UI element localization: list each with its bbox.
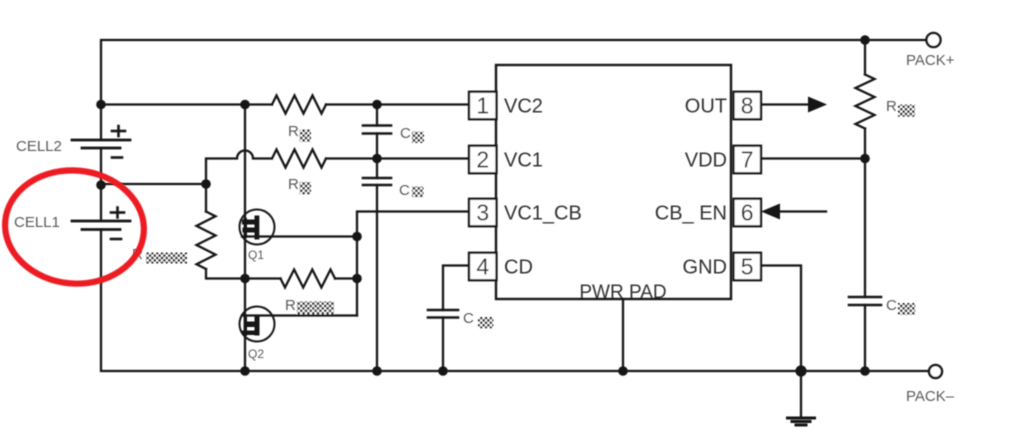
svg-text:5: 5: [741, 254, 754, 280]
wire: capacitor column x=377: [376, 105, 378, 126]
pin 6 box: [734, 199, 762, 227]
svg-text:C: C: [463, 310, 474, 327]
CELL2 minus sign: [112, 156, 122, 159]
wire: CELL2/CELL1 middle segment: [100, 148, 102, 221]
pin 4 box: [469, 253, 497, 281]
terminal PACK-: [929, 365, 942, 378]
svg-text:GND: GND: [683, 257, 727, 279]
svg-text:PACK+: PACK+: [906, 52, 955, 69]
battery CELL2: [72, 140, 130, 148]
svg-text:PACK–: PACK–: [906, 388, 955, 405]
pin 5 box: [734, 253, 762, 281]
svg-text:OUT: OUT: [685, 96, 727, 118]
wire: PWR PAD to bottom rail: [622, 299, 624, 371]
op-amp U1: IC body: [496, 65, 731, 299]
wire: top rail PACK+: [101, 40, 926, 140]
transistor Q1: [240, 210, 275, 245]
svg-text:6: 6: [741, 200, 754, 226]
resistor R(row VC2) zigzag: [272, 96, 326, 114]
redacted value blocks (checker): [146, 105, 915, 329]
svg-text:C: C: [399, 182, 410, 199]
svg-text:C: C: [400, 125, 411, 142]
svg-text:VC1_CB: VC1_CB: [504, 203, 582, 225]
wire: row VC1 right segment to pin 2: [326, 157, 469, 159]
capacitor C(row VC2) plates: [363, 126, 391, 134]
svg-text:1: 1: [476, 93, 489, 119]
wire: pin 8 OUT arrow line: [761, 103, 810, 105]
red highlight ellipse around CELL1: [0, 165, 148, 290]
wire: Q1 drain to node: [242, 235, 357, 237]
wire: pin 6 CB_EN arrow line: [779, 210, 826, 212]
ground symbol: [800, 371, 802, 417]
pin 3 box: [469, 199, 497, 227]
wire: gate rail x=245 (pin1 node down through Q1,Q2 to bottom): [244, 105, 246, 372]
CELL1 plus sign: [111, 208, 124, 218]
resistor R(PACK+, vertical): [864, 40, 866, 75]
svg-text:VC1: VC1: [504, 150, 543, 172]
svg-text:Q2: Q2: [248, 347, 264, 361]
svg-text:2: 2: [476, 147, 489, 173]
transistor Q2: [240, 307, 275, 342]
svg-text:R: R: [886, 98, 897, 115]
svg-text:3: 3: [476, 200, 489, 226]
capacitor C(CD) plates: [428, 310, 458, 318]
svg-text:VDD: VDD: [685, 150, 727, 172]
wire: left rail bottom (CELL1- to bottom rail to PACK-): [101, 230, 929, 372]
svg-text:VC2: VC2: [504, 96, 543, 118]
svg-text:8: 8: [741, 93, 754, 119]
svg-text:CD: CD: [504, 257, 533, 279]
svg-text:R: R: [285, 297, 296, 314]
battery CELL1: [72, 221, 130, 230]
svg-text:R: R: [288, 123, 299, 140]
wire: row VC2 right segment to pin 1: [326, 103, 469, 105]
wire: pin 4 CD to capacitor: [443, 266, 469, 311]
wire: CELL1+ to node: [101, 183, 206, 185]
capacitor C(row VC1) plates: [363, 178, 391, 185]
resistor R(between Q1 and Q2) zigzag: [245, 277, 281, 279]
wire: row VC2 left segment: [101, 103, 272, 105]
wire: pin 7 VDD to right column: [761, 157, 865, 159]
svg-text:PWR PAD: PWR PAD: [579, 282, 666, 303]
svg-text:7: 7: [741, 147, 754, 173]
wire: Q2 drain to node: [242, 314, 357, 316]
svg-text:CB_ EN: CB_ EN: [655, 203, 727, 225]
CELL2 plus sign: [112, 126, 125, 136]
svg-text:CELL1: CELL1: [14, 214, 60, 231]
terminal PACK+: [927, 33, 941, 47]
resistor R(cell balance, vertical): [205, 184, 207, 212]
svg-text:4: 4: [476, 254, 489, 280]
arrowhead pin 8 OUT: [808, 97, 827, 113]
wire: row VC1 left riser and hop over x=245: [206, 151, 271, 185]
wire: pin 3 VC1_CB to vertical x=357: [357, 212, 469, 316]
pin 2 box: [469, 146, 497, 174]
arrowhead pin 6 CB_EN: [761, 204, 780, 220]
capacitor C(VDD) plates: [849, 297, 881, 305]
svg-text:CELL2: CELL2: [16, 138, 62, 155]
svg-text:R: R: [288, 176, 299, 193]
svg-text:C: C: [886, 297, 897, 314]
pin 1 box: [469, 92, 497, 120]
pin 8 box: [734, 92, 762, 120]
svg-text:Q1: Q1: [248, 248, 264, 262]
wire: pin 5 GND to bottom rail: [761, 266, 801, 372]
pin 7 box: [734, 146, 762, 174]
CELL1 minus sign: [111, 238, 121, 241]
resistor R(row VC1) zigzag: [272, 150, 326, 168]
